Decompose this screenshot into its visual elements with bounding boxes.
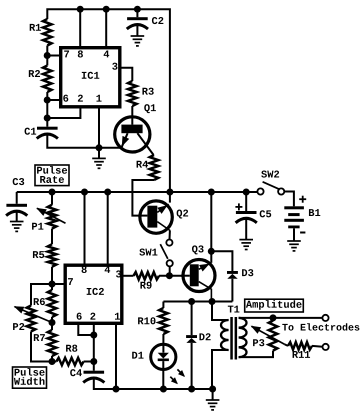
wire T1 primary top lead — [212, 302, 229, 321]
ground below B1 — [287, 241, 301, 251]
node bus / Q3 emitter branch junction — [208, 189, 215, 196]
resistor R7 — [48, 330, 57, 356]
label R11 — [292, 350, 311, 362]
label To Electrodes — [282, 323, 360, 335]
resistor R5 — [48, 244, 57, 267]
svg-text:D2: D2 — [199, 332, 211, 344]
boxed label Pulse Width — [13, 367, 47, 389]
wire main V+ distribution bus — [17, 191, 258, 193]
svg-text:Q1: Q1 — [144, 103, 156, 115]
wire wiper to R11 — [285, 344, 288, 346]
label T1 — [227, 304, 239, 316]
resistor R11 — [288, 342, 312, 349]
svg-text:P1: P1 — [31, 222, 43, 234]
pin 3 label IC1 — [112, 62, 118, 74]
svg-text:R5: R5 — [32, 250, 44, 262]
node bottom bus / D2 junction — [188, 386, 195, 393]
wire IC2 pin 4 to bus — [107, 192, 109, 265]
svg-text:8: 8 — [81, 265, 87, 277]
pin 8 label IC1 — [77, 49, 83, 61]
svg-text:Q3: Q3 — [192, 244, 204, 256]
svg-text:R1: R1 — [29, 23, 41, 35]
ground below C3 — [10, 222, 24, 232]
svg-text:C3: C3 — [12, 177, 24, 189]
label R3 — [142, 87, 154, 99]
ground below C2 — [131, 36, 145, 46]
wire R7 bottom to node — [51, 356, 53, 362]
node Q3 emitter/D3/bus junction — [208, 248, 215, 255]
pin 2 label IC2 — [90, 312, 96, 324]
svg-text:R2: R2 — [28, 69, 40, 81]
label Q2 — [176, 208, 188, 220]
svg-text:P2: P2 — [12, 322, 24, 334]
pin 1 label IC1 — [96, 94, 102, 106]
label R7 — [33, 333, 45, 345]
svg-text:B1: B1 — [308, 208, 320, 220]
node top bus / C2 junction — [134, 6, 141, 13]
potentiometer P3 — [269, 318, 278, 351]
wire IC2 pin 1 to bottom bus — [115, 324, 117, 389]
label C2 — [152, 16, 164, 28]
label Q3 — [192, 244, 204, 256]
svg-text:2: 2 — [90, 312, 96, 324]
resistor R2 — [43, 66, 52, 93]
wire R1 bottom to node — [46, 46, 48, 66]
label R6 — [33, 297, 45, 309]
label R5 — [32, 250, 44, 262]
wire IC1 pin 3 to R3 — [122, 68, 133, 81]
output terminal bottom circle — [323, 344, 329, 350]
label P1 — [31, 222, 43, 234]
label C5 — [259, 209, 271, 221]
diode D2 — [186, 335, 197, 389]
node SW1/R9/Q3 base junction — [166, 272, 173, 279]
label R4 — [136, 160, 148, 172]
label C1 — [24, 127, 36, 139]
svg-text:SW2: SW2 — [261, 169, 280, 181]
wire top supply bus with left corner to R1 and right corner to V+ rail — [47, 9, 170, 192]
node bottom bus / T1 primary junction — [209, 386, 216, 393]
label D1 — [132, 351, 144, 363]
label P3 — [252, 338, 264, 350]
wire bottom ground bus — [94, 388, 213, 390]
wire IC2 pin 3 to R9 — [122, 275, 134, 277]
label R8 — [65, 344, 77, 356]
node secondary top / P3 junction — [270, 314, 277, 321]
pin 4 label IC1 — [103, 49, 109, 61]
pin 2 label IC1 — [77, 94, 83, 106]
node flyback line / D2 junction — [188, 298, 195, 305]
wire P1 to R5 — [51, 229, 53, 245]
svg-text:C1: C1 — [24, 127, 36, 139]
op-amp timer IC1 box — [61, 48, 120, 107]
wire Q1 emitter to ground node — [99, 147, 121, 149]
wire IC2 pin 6 jog — [78, 324, 94, 335]
svg-text:R11: R11 — [292, 350, 311, 362]
node pin2/R8 junction — [90, 358, 97, 365]
wire node to R8 — [52, 361, 56, 363]
potentiometer P1 — [48, 205, 57, 229]
label R2 — [28, 69, 40, 81]
wire node up to V+ bus — [210, 192, 212, 251]
wire IC2 pin 8 to bus — [84, 192, 86, 265]
capacitor C1 — [37, 127, 99, 148]
svg-text:Amplitude: Amplitude — [246, 300, 302, 312]
wiper arrow of P1 — [36, 208, 65, 223]
label R9 — [140, 281, 152, 293]
label Q1 — [144, 103, 156, 115]
transformer T1 secondary winding — [239, 318, 247, 357]
switch SW2 — [257, 182, 294, 207]
svg-text:P3: P3 — [252, 338, 264, 350]
svg-text:D3: D3 — [241, 268, 253, 280]
wire P2 bottom to node — [31, 332, 52, 362]
wire IC1 pin 1 to ground node — [98, 108, 100, 148]
wire R4 bottom to Q2 base — [132, 180, 154, 216]
resistor R10 — [159, 308, 168, 334]
svg-text:8: 8 — [77, 49, 83, 61]
wire IC1 pin 8 to top bus — [79, 9, 81, 46]
label R10 — [137, 316, 156, 328]
boxed label Pulse Rate — [35, 165, 69, 187]
label C4 — [70, 368, 82, 380]
node bus / IC2 pin 8 junction — [81, 189, 88, 196]
label R1 — [29, 23, 41, 35]
svg-text:R6: R6 — [33, 297, 45, 309]
wire R8 to C4 column — [84, 361, 94, 363]
wire R5 to node — [51, 267, 53, 290]
svg-text:6: 6 — [76, 312, 82, 324]
ground at IC1 pin 1 node — [92, 148, 106, 169]
transistor Q2 — [138, 201, 172, 233]
resistor R4 — [150, 155, 159, 180]
battery B1 — [284, 206, 304, 241]
label SW2 — [261, 169, 280, 181]
svg-text:Width: Width — [14, 377, 45, 389]
node bottom bus / IC2 pin 1 junction — [113, 386, 120, 393]
svg-text:1: 1 — [96, 94, 102, 106]
output terminal top circle — [322, 315, 328, 321]
svg-text:Rate: Rate — [40, 175, 65, 187]
node C1/IC1 pin 2 junction — [44, 115, 51, 122]
svg-text:1: 1 — [114, 312, 120, 324]
wire bus to P1 — [51, 192, 53, 205]
resistor R1 — [43, 19, 52, 46]
pin 7 label IC2 — [67, 277, 73, 289]
pin 3 label IC2 — [115, 269, 121, 281]
svg-text:IC2: IC2 — [86, 287, 105, 299]
wire secondary top to output — [239, 317, 323, 319]
transformer T1 core — [230, 317, 237, 360]
wiper arrow of P3 — [251, 326, 285, 345]
label D2 — [199, 332, 211, 344]
svg-text:R9: R9 — [140, 281, 152, 293]
resistor R6 — [48, 290, 57, 317]
node R6/R7/P2 wiper junction — [49, 319, 56, 326]
wire T1 primary bottom lead — [212, 350, 229, 389]
svg-text:7: 7 — [67, 277, 73, 289]
wire D2 column upper — [191, 302, 193, 336]
wire Q2 collector to SW1 — [169, 231, 171, 240]
wire P2 branch — [31, 284, 52, 306]
label IC2 — [86, 287, 105, 299]
wire secondary bottom to P3 — [239, 351, 273, 358]
node R1/R2/IC1 pin 7 junction — [44, 52, 51, 59]
potentiometer P2 — [27, 306, 36, 332]
svg-text:R8: R8 — [65, 344, 77, 356]
minus sign for B1 — [300, 232, 305, 234]
svg-text:To Electrodes: To Electrodes — [282, 323, 360, 335]
resistor R9 — [134, 272, 160, 279]
svg-text:Q2: Q2 — [176, 208, 188, 220]
op-amp timer IC2 box — [65, 265, 122, 323]
label P2 — [12, 322, 24, 334]
wire node to IC1 pin 6 — [47, 99, 60, 101]
plus sign for C5 — [235, 203, 242, 210]
svg-text:C2: C2 — [152, 16, 164, 28]
node bus / IC2 pin 4 junction — [104, 189, 111, 196]
wire node to IC2 pin 7 — [52, 283, 65, 285]
node bus / P1 junction — [49, 189, 56, 196]
node R2/IC1 pin 6 junction — [44, 97, 51, 104]
svg-text:R7: R7 — [33, 333, 45, 345]
capacitor C2 — [127, 9, 148, 36]
plus sign for B1 — [299, 196, 306, 203]
pin 6 label IC2 — [76, 312, 82, 324]
transistor Q3 — [181, 260, 215, 302]
node bus / C5 junction — [243, 189, 250, 196]
svg-text:7: 7 — [63, 49, 69, 61]
svg-text:4: 4 — [103, 49, 109, 61]
pin 8 label IC2 — [81, 265, 87, 277]
node bottom bus / D1 junction — [160, 386, 167, 393]
resistor R3 — [128, 81, 137, 106]
label B1 — [308, 208, 320, 220]
node R5/R6/IC2 pin 7 junction — [49, 281, 56, 288]
pin 4 label IC2 — [104, 265, 110, 277]
node top bus / IC1 pin 4 junction — [103, 6, 110, 13]
node R7/P2/R8 junction — [49, 358, 56, 365]
wire node to D3 — [211, 251, 232, 271]
label SW1 — [139, 247, 158, 259]
capacitor C4 — [83, 371, 116, 389]
diode D3 — [227, 271, 238, 302]
svg-text:3: 3 — [112, 62, 118, 74]
transformer T1 primary winding — [221, 320, 229, 350]
node flyback line / Q3 collector / T1 junction — [209, 298, 216, 305]
wire IC1 pin 2 jog — [47, 108, 80, 119]
wire node to IC1 pin 7 — [47, 55, 60, 57]
svg-text:C5: C5 — [259, 209, 271, 221]
pin 6 label IC1 — [63, 94, 69, 106]
svg-text:R3: R3 — [142, 87, 154, 99]
wire R2 bottom to C1 — [46, 92, 48, 127]
wire IC1 pin 4 to top bus — [105, 9, 107, 46]
capacitor C5 — [236, 192, 257, 240]
wire IC2 pin 2 down to C4 — [93, 324, 95, 371]
capacitor C3 — [6, 192, 27, 222]
pin 7 label IC1 — [63, 49, 69, 61]
label IC1 — [81, 71, 100, 83]
label D3 — [241, 268, 253, 280]
node IC2 pin6/pin2 junction — [90, 332, 97, 339]
wire node down to R10 — [162, 302, 164, 309]
node bus / V+ rail junction — [166, 189, 173, 196]
svg-text:SW1: SW1 — [139, 247, 158, 259]
boxed label Amplitude — [245, 299, 304, 312]
switch SW1 — [160, 240, 172, 276]
wire R6 to node — [51, 317, 53, 330]
svg-text:4: 4 — [104, 265, 110, 277]
wire R9 to Q3 base — [159, 275, 190, 277]
wire Q3 emitter up to node — [210, 251, 212, 262]
wire R11 to output terminal — [312, 345, 323, 348]
svg-text:R10: R10 — [137, 316, 156, 328]
svg-text:D1: D1 — [132, 351, 144, 363]
ground below C5 — [239, 240, 253, 250]
wire flyback node line — [163, 301, 232, 303]
node top bus / IC1 pin 8 junction — [77, 6, 84, 13]
svg-text:C4: C4 — [70, 368, 82, 380]
resistor R8 — [56, 358, 83, 365]
pin 1 label IC2 — [114, 312, 120, 324]
svg-text:2: 2 — [77, 94, 83, 106]
svg-text:3: 3 — [115, 269, 121, 281]
wiper arrow of P2 — [14, 306, 52, 322]
ground at bottom bus — [206, 389, 220, 410]
label C3 — [12, 177, 24, 189]
svg-text:IC1: IC1 — [81, 71, 100, 83]
svg-text:R4: R4 — [136, 160, 148, 172]
wire V+ rail into Q2 emitter — [169, 192, 171, 203]
LED D1 — [151, 334, 185, 389]
node IC1 pin1/C1/Q1 emitter ground junction — [96, 144, 103, 151]
svg-text:T1: T1 — [227, 304, 239, 316]
transistor Q1 — [115, 116, 154, 155]
wire R3 to Q1 base — [131, 106, 133, 125]
svg-text:6: 6 — [63, 94, 69, 106]
